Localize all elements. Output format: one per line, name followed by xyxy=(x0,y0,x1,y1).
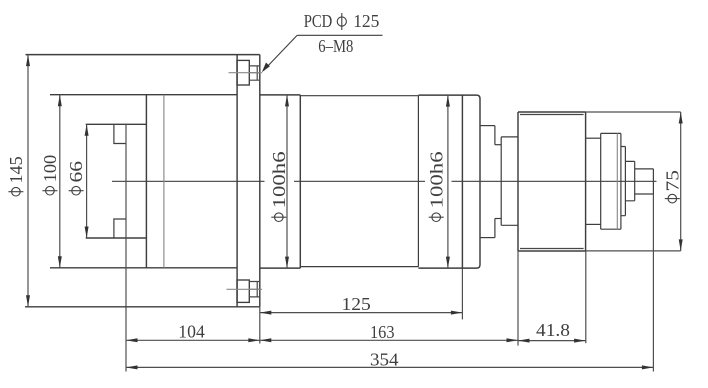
svg-text:104: 104 xyxy=(178,322,205,342)
rear keyway top notch xyxy=(114,124,126,143)
leader line to bolt xyxy=(264,35,298,70)
svg-text:145: 145 xyxy=(6,156,26,183)
step ring C xyxy=(501,137,518,225)
svg-text:100: 100 xyxy=(40,155,60,183)
dimension 163 xyxy=(260,339,518,341)
pulley chamfer edges xyxy=(520,115,584,249)
note phi symbol xyxy=(337,17,346,26)
dimension phi75 xyxy=(680,112,682,251)
rear boss (phi66) xyxy=(86,124,147,238)
centerline main axis xyxy=(112,180,657,182)
pulley face extension lines down to dims xyxy=(517,251,519,346)
spindle cylinder section C (phi100h6 rear) xyxy=(418,95,480,268)
label phi100h6 front xyxy=(269,151,289,221)
shaft step ring 2 xyxy=(625,161,634,200)
label phi75 xyxy=(662,170,682,203)
svg-text:100h6: 100h6 xyxy=(269,151,289,208)
svg-text:354: 354 xyxy=(370,350,399,370)
svg-text:163: 163 xyxy=(370,322,395,342)
svg-text:PCD: PCD xyxy=(304,11,333,31)
dimension phi100 xyxy=(59,95,61,268)
rear keyway bottom notch xyxy=(114,219,126,238)
dimension 104 xyxy=(126,339,260,341)
bearing block inner joint xyxy=(616,133,618,229)
dimension phi145 xyxy=(27,55,29,307)
svg-text:125: 125 xyxy=(353,11,379,31)
shaft step ring 1 xyxy=(621,147,626,216)
label phi145 xyxy=(6,156,26,196)
shaft end extension line down to dim 354 xyxy=(652,194,654,372)
bearing block xyxy=(601,133,621,229)
spindle cylinder section B (middle housing) xyxy=(300,96,418,267)
shaft end xyxy=(635,169,654,194)
svg-text:125: 125 xyxy=(342,294,371,314)
motor body rear cap joint line xyxy=(163,95,165,268)
hub ring behind pulley xyxy=(586,138,601,224)
note underline xyxy=(297,34,382,36)
dimension phi100h6 front xyxy=(286,95,288,268)
pulley block (phi75) xyxy=(518,112,586,251)
svg-text:100h6: 100h6 xyxy=(426,151,446,208)
bolt M8 top: thread lines xyxy=(249,66,259,80)
dimension phi66 xyxy=(86,124,88,238)
phi75 extension lines to right dimension xyxy=(586,111,681,113)
svg-text:66: 66 xyxy=(66,161,86,183)
keyway right edge / extension line for 104 and 354 xyxy=(125,124,127,371)
dimension 125 xyxy=(260,312,463,314)
bolt M8 bottom: centerline xyxy=(227,288,263,290)
svg-text:41.8: 41.8 xyxy=(536,320,570,340)
extension line at joint 462 for dim 125 xyxy=(461,268,463,319)
bolt M8 bottom: screw head xyxy=(237,280,249,302)
flange right face extension line down to dims xyxy=(259,307,261,344)
label phi66 xyxy=(66,161,86,195)
spindle cylinder section A (phi100h6 front) xyxy=(260,95,301,268)
step ring B xyxy=(495,137,501,225)
dimension 354 xyxy=(126,366,653,368)
bolt M8 top: centerline xyxy=(229,72,263,74)
bolt M8 bottom: thread lines xyxy=(249,282,259,297)
svg-text:6–M8: 6–M8 xyxy=(318,36,353,56)
dimension 41.8 xyxy=(518,340,586,342)
mounting flange (phi145) xyxy=(25,55,260,307)
dimension phi100h6 rear xyxy=(447,95,449,268)
bolt M8 top: screw head xyxy=(237,60,249,85)
svg-text:75: 75 xyxy=(662,170,682,192)
label phi100h6 rear xyxy=(426,151,446,221)
step ring A xyxy=(480,126,495,238)
label phi100 xyxy=(40,155,60,195)
motor body (left housing) xyxy=(50,95,237,268)
